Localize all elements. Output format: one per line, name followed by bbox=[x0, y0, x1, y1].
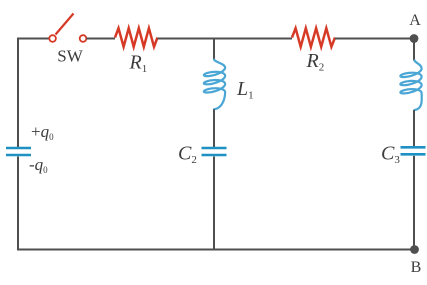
inductor L1 bbox=[204, 60, 225, 110]
wire: middle top bbox=[213, 38, 215, 60]
svg-text:C2: C2 bbox=[178, 143, 197, 167]
switch SW bbox=[49, 14, 86, 42]
svg-text:+q0: +q0 bbox=[31, 122, 54, 142]
wire: middle between L1 and C2 bbox=[213, 109, 215, 147]
node B bbox=[410, 245, 419, 254]
capacitor C3 bbox=[401, 147, 426, 154]
wire: top-left segment to switch bbox=[18, 39, 49, 148]
capacitor q0 (left branch) bbox=[6, 148, 31, 155]
capacitor C2 bbox=[202, 148, 227, 155]
wire: left lower bbox=[17, 157, 19, 251]
svg-text:L1: L1 bbox=[236, 78, 254, 102]
resistor R1 bbox=[115, 28, 158, 47]
svg-text:B: B bbox=[411, 259, 422, 276]
wire: middle bottom bbox=[213, 157, 215, 251]
svg-text:C3: C3 bbox=[381, 143, 400, 167]
resistor R2 bbox=[292, 28, 335, 47]
wire: right top (A to coil) bbox=[413, 39, 415, 61]
wire: switch to R1 bbox=[86, 38, 115, 40]
wire: right between coil and C3 bbox=[413, 110, 415, 147]
wire: R2 to node A bbox=[335, 38, 414, 40]
inductor (right branch) bbox=[400, 61, 421, 111]
svg-text:SW: SW bbox=[57, 47, 83, 66]
svg-text:R1: R1 bbox=[129, 52, 148, 76]
wire: bottom bbox=[17, 249, 415, 251]
svg-text:A: A bbox=[409, 12, 421, 29]
svg-text:R2: R2 bbox=[306, 50, 325, 74]
svg-text:-q0: -q0 bbox=[29, 155, 48, 175]
node A bbox=[410, 34, 419, 43]
wire: right bottom bbox=[413, 156, 415, 250]
wire: R1 to R2 bbox=[158, 38, 293, 40]
